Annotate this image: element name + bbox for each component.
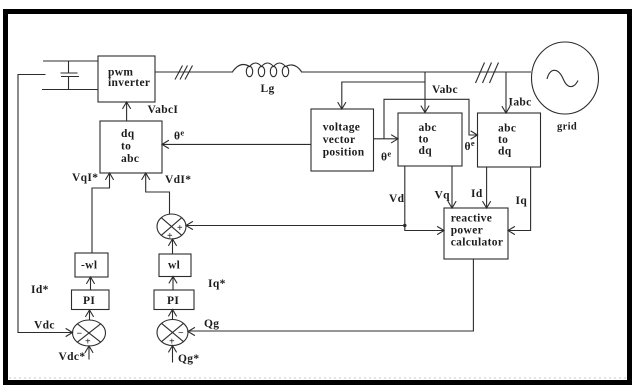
block abc to dq (voltage) xyxy=(398,113,462,166)
wire theta-e vvp to abc-dq xyxy=(374,138,398,140)
svg-text:Qg*: Qg* xyxy=(178,353,200,365)
svg-text:θe: θe xyxy=(465,138,475,153)
summer lower right (Qg) xyxy=(157,320,188,348)
svg-text:Iabc: Iabc xyxy=(509,97,532,109)
svg-text:voltage: voltage xyxy=(323,122,361,134)
capacitor C (dc link) xyxy=(42,61,98,90)
summer lower left (Vdc) xyxy=(73,320,106,348)
wire summer to PI right xyxy=(172,310,174,320)
svg-text:Iq*: Iq* xyxy=(208,278,226,290)
svg-text:VdI*: VdI* xyxy=(165,174,191,186)
svg-text:reactive: reactive xyxy=(451,213,493,225)
block abc to dq (current) xyxy=(478,113,541,167)
svg-text:+: + xyxy=(85,337,91,348)
wire ac main line xyxy=(155,71,232,73)
svg-text:grid: grid xyxy=(557,122,577,133)
svg-text:Qg: Qg xyxy=(204,318,219,330)
wire PI to wl xyxy=(172,277,174,290)
svg-text:to: to xyxy=(498,134,508,146)
svg-text:abc: abc xyxy=(121,153,139,165)
svg-text:+: + xyxy=(177,223,183,234)
svg-text:abc: abc xyxy=(498,123,516,135)
svg-text:-wl: -wl xyxy=(81,260,97,272)
wire Qg feedback xyxy=(189,259,474,331)
block voltage vector position xyxy=(311,109,374,171)
svg-text:VabcI: VabcI xyxy=(148,104,179,116)
wire Vdc* input xyxy=(88,347,90,360)
block reactive power calculator xyxy=(444,208,508,259)
block PI right xyxy=(154,290,194,310)
svg-text:dq: dq xyxy=(121,128,135,140)
svg-text:to: to xyxy=(419,134,429,146)
svg-text:Vabc: Vabc xyxy=(432,84,458,96)
faint scan artifact line xyxy=(9,377,627,379)
wire PI to -wl xyxy=(90,278,92,291)
node Vdc arrow into summer xyxy=(66,328,73,336)
svg-text:wl: wl xyxy=(168,260,180,272)
svg-text:θe: θe xyxy=(381,149,391,164)
wire Vd xyxy=(405,166,444,231)
wire theta-e to dq-abc xyxy=(163,143,312,145)
svg-text:to: to xyxy=(121,141,131,153)
block dq to abc xyxy=(100,121,162,173)
wire VdI* into dq-abc xyxy=(146,174,170,215)
svg-text:Vq: Vq xyxy=(435,190,451,202)
three-phase slashes right xyxy=(476,63,499,84)
svg-text:inverter: inverter xyxy=(108,77,150,89)
wire Vd to upper summer xyxy=(187,225,405,227)
block -wl xyxy=(75,253,108,277)
block pwm inverter xyxy=(98,56,155,102)
svg-text:Vdc*: Vdc* xyxy=(59,351,86,363)
svg-text:abc: abc xyxy=(419,122,437,134)
svg-text:Vdc: Vdc xyxy=(34,320,55,332)
svg-text:calculator: calculator xyxy=(451,237,504,249)
svg-text:Lg: Lg xyxy=(261,83,275,95)
svg-text:dq: dq xyxy=(419,145,433,157)
grid source xyxy=(532,42,599,133)
svg-text:VqI*: VqI* xyxy=(72,172,98,184)
wire Vq xyxy=(451,166,453,208)
svg-text:Iq: Iq xyxy=(516,195,528,207)
svg-text:dq: dq xyxy=(498,146,512,158)
svg-text:−: − xyxy=(77,329,83,340)
wire Id xyxy=(486,167,488,208)
svg-text:PI: PI xyxy=(83,295,95,307)
block PI left xyxy=(72,290,110,310)
wire Vabc tap xyxy=(424,72,426,112)
svg-text:position: position xyxy=(323,147,365,159)
wire branch to voltage vector position xyxy=(342,82,425,109)
summer upper (current ref) xyxy=(157,214,186,242)
wire VqI* into dq-abc xyxy=(92,174,110,254)
wire Iabc tap xyxy=(505,72,507,113)
wire wl to summer xyxy=(172,240,174,255)
svg-text:Vd: Vd xyxy=(389,193,405,205)
wire VabcI xyxy=(126,103,128,122)
three-phase slashes left xyxy=(175,66,193,80)
inductor Lg xyxy=(232,63,302,95)
wire Iq xyxy=(509,167,531,231)
svg-text:Id: Id xyxy=(471,188,483,200)
svg-text:−: − xyxy=(178,328,184,339)
svg-text:θe: θe xyxy=(174,128,184,143)
block wl xyxy=(159,254,191,277)
svg-text:PI: PI xyxy=(167,295,179,307)
wire summer to PI left xyxy=(89,311,91,321)
wire Qg* input xyxy=(172,346,174,363)
wire Vdc sense tap xyxy=(18,75,72,333)
svg-text:power: power xyxy=(451,225,483,237)
svg-text:vector: vector xyxy=(323,134,356,146)
node junction dot xyxy=(403,224,406,227)
svg-text:Id*: Id* xyxy=(31,284,49,296)
wire theta-e distribution xyxy=(384,99,477,139)
